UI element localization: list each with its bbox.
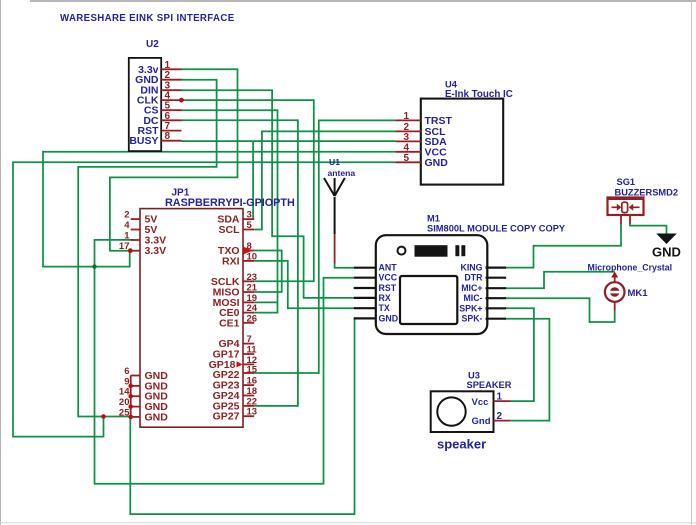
svg-text:ANT: ANT	[379, 263, 398, 273]
svg-text:4: 4	[124, 220, 130, 231]
svg-text:SIM800L MODULE COPY COPY: SIM800L MODULE COPY COPY	[427, 224, 566, 234]
svg-text:BUZZERSMD2: BUZZERSMD2	[615, 188, 679, 198]
svg-text:SPEAKER: SPEAKER	[467, 380, 512, 390]
svg-text:Vcc: Vcc	[472, 397, 489, 408]
wire U2 DIN to M1 RX	[181, 90, 354, 298]
svg-text:10: 10	[247, 251, 258, 262]
wire U2 CLK to JP1 SCLK	[181, 100, 314, 281]
svg-text:23: 23	[247, 272, 258, 283]
wire M1 SPK- to speaker Gnd	[506, 319, 549, 421]
wire branch to JP1 SDA	[253, 141, 254, 219]
wire M1 MIC+ to microphone top	[506, 272, 615, 289]
svg-text:MIC+: MIC+	[461, 283, 482, 293]
svg-text:21: 21	[247, 283, 258, 294]
svg-text:U4: U4	[445, 80, 458, 90]
wire U2.1 3.3v to JP1 pin17	[110, 69, 238, 250]
IC U4 E-Ink Touch	[421, 80, 513, 185]
wire JP1 pin1 3.3V to M1 VCC	[95, 240, 354, 484]
svg-text:RX: RX	[379, 293, 391, 303]
svg-text:11: 11	[247, 345, 258, 356]
buzzer SG1	[607, 177, 678, 224]
JP1 left labels	[145, 214, 169, 424]
wire buzzer to M1 KING	[506, 224, 621, 268]
frame edges	[30, 0, 696, 2]
svg-text:MIC-: MIC-	[463, 293, 482, 303]
svg-text:antena: antena	[328, 168, 356, 178]
wire GND chain to M1 GND	[130, 318, 354, 514]
svg-text:SCL: SCL	[219, 224, 241, 236]
svg-text:RXI: RXI	[222, 255, 240, 267]
junction dot GND rail	[101, 414, 106, 419]
junction dots GND chain	[128, 384, 133, 389]
junction dot JP1 pin17	[128, 248, 133, 253]
JP1 left pin numbers	[119, 210, 130, 419]
svg-text:1: 1	[497, 392, 503, 403]
svg-text:Microphone_Crystal: Microphone_Crystal	[588, 263, 673, 273]
svg-text:WARESHARE EINK SPI INTERFACE: WARESHARE EINK SPI INTERFACE	[60, 13, 235, 24]
JP1 left pin stubs	[130, 219, 140, 417]
svg-text:RASPBERRYPI-GPIOPTH: RASPBERRYPI-GPIOPTH	[165, 197, 295, 209]
header JP1	[140, 188, 295, 428]
wire U2 CS to JP1 CE0	[181, 110, 278, 312]
svg-text:16: 16	[247, 376, 258, 387]
wire U4 TRST to JP1 GP22	[254, 120, 395, 373]
wire U4 VCC rail	[43, 152, 396, 267]
red arrow at TXO pin	[244, 247, 254, 254]
svg-text:E-Ink Touch IC: E-Ink Touch IC	[445, 89, 513, 100]
svg-text:U1: U1	[329, 157, 340, 167]
M1 left pin stubs	[354, 268, 376, 319]
wire U2 DC to JP1 GP25	[181, 120, 298, 406]
M1 pin names	[379, 263, 399, 324]
U3 pin stubs	[494, 401, 511, 421]
wire antenna to M1 ANT	[335, 264, 354, 268]
svg-text:RST: RST	[379, 283, 397, 293]
svg-text:SPK+: SPK+	[459, 303, 482, 313]
junction dot 3.3V rail	[92, 264, 96, 268]
svg-text:15: 15	[247, 364, 258, 375]
wire buzzer to GND symbol	[630, 224, 667, 234]
svg-text:GND: GND	[145, 411, 169, 423]
speaker U3	[431, 371, 512, 433]
ground symbol GND	[652, 234, 681, 260]
JP1 right pin stubs	[243, 219, 254, 416]
JP1 right pin numbers	[247, 210, 258, 418]
svg-text:3.3V: 3.3V	[145, 245, 167, 257]
U3 pin numbers	[497, 392, 503, 423]
svg-text:BUSY: BUSY	[129, 135, 158, 147]
svg-text:U2: U2	[146, 39, 159, 50]
U2 pin numbers	[165, 60, 171, 142]
svg-text:GP27: GP27	[213, 411, 240, 423]
svg-text:SPK-: SPK-	[461, 314, 482, 324]
connector U2	[129, 39, 161, 151]
svg-text:3: 3	[247, 210, 252, 221]
svg-text:7: 7	[247, 334, 252, 345]
wire U4 GND rail	[13, 162, 396, 436]
svg-text:CE1: CE1	[219, 317, 240, 329]
red mark at GP18 pin	[237, 361, 243, 367]
microphone MK1	[588, 263, 673, 311]
antenna U1	[324, 157, 355, 264]
svg-text:3: 3	[403, 132, 409, 143]
svg-text:TX: TX	[379, 303, 390, 313]
U2 pin names	[129, 64, 159, 147]
wire U2 BUSY to U4 SDA	[181, 140, 396, 142]
svg-text:DTR: DTR	[464, 273, 483, 283]
junction dot CLK	[179, 98, 184, 103]
svg-text:1: 1	[165, 60, 171, 71]
svg-text:M1: M1	[427, 214, 440, 224]
GND chain vertical	[130, 376, 132, 417]
svg-text:2: 2	[165, 70, 171, 81]
svg-text:2: 2	[497, 411, 503, 422]
svg-text:1: 1	[403, 111, 409, 122]
wire JP1 RXI to M1 TX	[254, 261, 354, 308]
U4 pin names	[425, 115, 453, 169]
svg-text:MK1: MK1	[628, 288, 649, 299]
svg-text:18: 18	[247, 386, 258, 397]
svg-text:4: 4	[403, 142, 409, 153]
svg-text:GND: GND	[425, 157, 449, 169]
JP1 right labels	[209, 214, 240, 423]
svg-text:VCC: VCC	[379, 273, 398, 283]
svg-text:5: 5	[247, 220, 253, 231]
wire M1 SPK+ to speaker Vcc	[506, 308, 534, 401]
svg-text:GND: GND	[379, 313, 399, 323]
U4 pin stubs	[396, 120, 422, 162]
svg-text:5: 5	[403, 153, 409, 164]
svg-text:SG1: SG1	[617, 177, 636, 187]
wire M1 MIC- to microphone bottom	[506, 298, 615, 322]
module M1 SIM800L	[376, 214, 566, 335]
svg-text:U3: U3	[468, 371, 480, 381]
svg-text:1: 1	[124, 231, 130, 242]
svg-text:Gnd: Gnd	[472, 416, 491, 427]
svg-text:8: 8	[165, 131, 171, 142]
svg-text:26: 26	[247, 313, 258, 324]
svg-text:2: 2	[124, 210, 129, 221]
U4 pin numbers	[403, 111, 409, 164]
wire branch to JP1 MOSI	[254, 301, 277, 303]
wire U2.2 GND to JP1 GND row	[78, 80, 216, 417]
wire JP1 TXO to JP1 MISO	[254, 251, 282, 293]
M1 right pin stubs	[486, 268, 507, 319]
wire JP1 SCL to U4 SCL	[254, 131, 395, 229]
svg-text:speaker: speaker	[437, 437, 486, 452]
svg-text:GND: GND	[652, 245, 681, 260]
U2 pin stubs	[161, 69, 181, 140]
svg-text:13: 13	[247, 407, 258, 418]
svg-text:KING: KING	[461, 263, 483, 273]
svg-text:6: 6	[124, 366, 129, 377]
